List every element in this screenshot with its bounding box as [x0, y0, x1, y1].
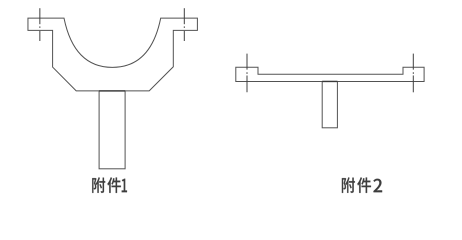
- stem top overlap seam (part 1): [99, 90, 125, 92]
- centerline left (part 2): [246, 54, 248, 93]
- centerline right (part 2): [412, 54, 414, 93]
- centerline right (part 1): [183, 8, 185, 41]
- stem of part 2: [322, 81, 337, 127]
- stem top overlap seam (part 2): [322, 80, 337, 82]
- stem of part 1: [99, 91, 125, 169]
- bar body (part 2 outline): [236, 67, 424, 81]
- label text 附件2: [342, 177, 382, 193]
- bracket body (part 1 outline): [28, 18, 197, 91]
- label text 附件1: [92, 177, 127, 193]
- centerline left (part 1): [39, 8, 41, 41]
